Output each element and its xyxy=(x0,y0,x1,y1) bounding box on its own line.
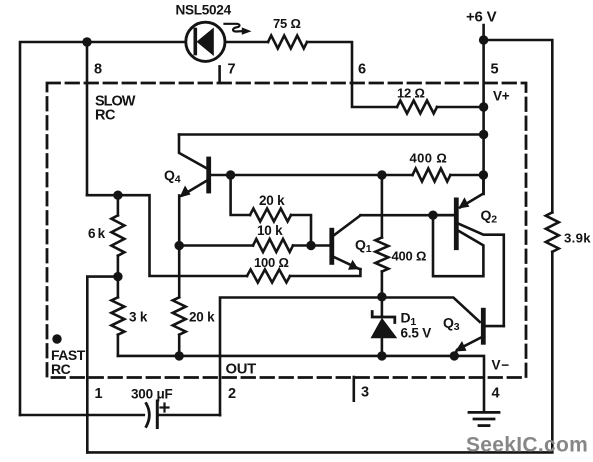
svg-text:Q1: Q1 xyxy=(355,237,372,256)
junction pin 8 / top rail xyxy=(82,37,91,46)
label 3.9k xyxy=(564,231,591,246)
label pin 5 xyxy=(491,62,499,78)
junction 12 ohm / V+ xyxy=(479,102,488,111)
wire: emitter column to 10k xyxy=(179,244,253,247)
svg-text:+6 V: +6 V xyxy=(466,9,497,26)
label D1 xyxy=(401,310,417,329)
label pin 8 xyxy=(94,62,102,78)
junction Q2 base xyxy=(428,211,437,220)
resistor 3 k xyxy=(111,277,124,356)
label RC fast xyxy=(51,361,71,377)
svg-text:20 k: 20 k xyxy=(189,310,215,325)
resistor 20 k horizontal xyxy=(250,209,291,222)
junction Q1 base xyxy=(306,241,315,250)
label SLOW xyxy=(95,94,136,110)
label 10 k xyxy=(257,223,283,238)
wire: pin 8 to 6k top and down-step to 100 ohm xyxy=(87,195,247,276)
label pin 6 xyxy=(358,62,366,78)
junction 6k top xyxy=(113,191,122,200)
transistor Q2 xyxy=(433,175,504,326)
label 75 ohm xyxy=(273,16,301,31)
label pin 7 xyxy=(228,62,236,78)
svg-text:RC: RC xyxy=(95,108,116,124)
transistor Q3 xyxy=(454,310,504,356)
label 100 ohm xyxy=(254,255,289,270)
wire: LED cathode to 75 ohm resistor xyxy=(225,41,268,44)
label 6.5 V xyxy=(401,326,432,341)
wire: Q1 collector to Q2 base xyxy=(360,214,454,217)
label pin 2 xyxy=(228,386,236,402)
resistor 12 ohm xyxy=(397,101,437,114)
label 400 ohm vertical xyxy=(392,249,427,264)
label Q2 xyxy=(481,207,498,226)
label OUT xyxy=(226,362,257,378)
label Q1 xyxy=(355,237,372,256)
svg-text:4: 4 xyxy=(492,386,500,402)
svg-text:Q3: Q3 xyxy=(443,315,460,334)
svg-text:400 Ω: 400 Ω xyxy=(392,249,427,264)
wire: top rail from left corner to LED anode xyxy=(20,42,186,415)
junction 6k bottom / 3k top xyxy=(113,272,122,281)
svg-text:3 k: 3 k xyxy=(129,310,148,325)
wire: 12 ohm to V+ line xyxy=(437,106,483,109)
pin 3 tick xyxy=(352,377,355,401)
wire: 20k to Q1 base node xyxy=(291,215,311,246)
svg-text:6.5 V: 6.5 V xyxy=(401,326,432,341)
resistor 3.9k xyxy=(546,212,559,251)
resistor 400 ohm vertical xyxy=(375,175,388,297)
svg-text:6 k: 6 k xyxy=(88,226,106,241)
label pin 1 xyxy=(95,386,103,402)
zener diode D1 6.5 V xyxy=(371,298,398,356)
svg-text:5: 5 xyxy=(491,62,499,78)
label SeekIC.com watermark xyxy=(466,434,588,457)
resistor 100 ohm xyxy=(247,270,290,283)
label Q4 xyxy=(164,167,181,186)
junction 400 ohm vertical top xyxy=(377,170,386,179)
svg-text:RC: RC xyxy=(51,361,71,377)
wire: 10k to Q1 base xyxy=(293,244,330,247)
svg-text:NSL5024: NSL5024 xyxy=(176,3,232,18)
svg-text:75 Ω: 75 Ω xyxy=(273,16,301,31)
svg-text:V+: V+ xyxy=(493,89,510,104)
wire: V- rail (pin 4) xyxy=(118,356,484,412)
junction Q2 emitter / V+ xyxy=(479,170,488,179)
arrowhead Q4 emitter xyxy=(180,186,191,198)
svg-text:SeekIC.com: SeekIC.com xyxy=(466,434,588,457)
transistor Q4 xyxy=(179,135,209,196)
svg-text:8: 8 xyxy=(94,62,102,78)
junction Q4 emitter / 10k xyxy=(175,241,184,250)
IC package dashed boundary box xyxy=(47,83,526,378)
label FAST xyxy=(51,347,86,363)
svg-text:20 k: 20 k xyxy=(259,193,285,208)
svg-text:400 Ω: 400 Ω xyxy=(410,151,448,166)
label pin 4 xyxy=(492,386,500,402)
label 3 k xyxy=(129,310,148,325)
svg-text:12 Ω: 12 Ω xyxy=(397,86,425,101)
arrowhead Q1 emitter xyxy=(348,260,359,270)
label 12 ohm xyxy=(397,86,425,101)
label 6 k xyxy=(88,226,106,241)
wire: bottom rail to capacitor left plate xyxy=(20,414,144,417)
svg-text:OUT: OUT xyxy=(226,362,257,378)
wire: 6k bottom to pin 1 line xyxy=(87,277,118,453)
label 20 k vertical xyxy=(189,310,215,325)
junction Q4 base / 20k branch xyxy=(226,170,235,179)
junction Q4 collector rail / V+ xyxy=(479,130,488,139)
svg-text:6: 6 xyxy=(358,62,366,78)
wire: +6V to right 3.9k branch xyxy=(484,40,553,212)
resistor 400 ohm horizontal xyxy=(413,169,484,182)
wire: Q4 base rail xyxy=(210,174,413,177)
LED NSL5024 xyxy=(186,22,242,61)
svg-text:10 k: 10 k xyxy=(257,223,283,238)
junction zener bottom / V- rail xyxy=(377,351,386,360)
junction 20k bottom / V- rail xyxy=(175,351,184,360)
wire: pin 8 line xyxy=(86,42,89,195)
svg-text:Q4: Q4 xyxy=(164,167,181,186)
wire: Q4 collector rail to V+ xyxy=(179,133,484,136)
resistor 10 k xyxy=(253,239,293,252)
wire: Q4 emitter column xyxy=(178,196,181,246)
svg-text:7: 7 xyxy=(228,62,236,78)
label +6 V xyxy=(466,9,497,26)
arrowhead Q3 emitter xyxy=(455,341,466,352)
label 20 k horizontal xyxy=(259,193,285,208)
resistor 75 ohm xyxy=(268,36,307,49)
wire: capacitor plus plate to pin 2 xyxy=(157,414,220,417)
wire: base branch down to 20k xyxy=(231,175,250,215)
junction +6V xyxy=(479,35,488,44)
svg-text:1: 1 xyxy=(95,386,103,402)
label NSL5024 xyxy=(176,3,232,18)
label RC slow xyxy=(95,108,116,124)
junction zener top xyxy=(377,292,386,301)
label pin 3 xyxy=(361,385,369,401)
resistor 6 k xyxy=(111,195,124,276)
wire: 100 ohm to Q1 emitter xyxy=(290,269,360,276)
wire: 75 ohm to pin 6 drop xyxy=(307,42,397,107)
label V- xyxy=(492,358,511,373)
svg-text:V−: V− xyxy=(492,358,511,373)
label 300 uF xyxy=(131,387,173,402)
svg-text:300 μF: 300 μF xyxy=(131,387,173,402)
label Q3 xyxy=(443,315,460,334)
svg-text:2: 2 xyxy=(228,386,236,402)
label V+ xyxy=(493,89,510,104)
arrowhead LED light xyxy=(242,27,252,34)
node FAST RC bullet xyxy=(52,334,61,343)
capacitor C1 300 uF xyxy=(146,401,168,428)
svg-text:100 Ω: 100 Ω xyxy=(254,255,289,270)
arrowhead Q2 emitter xyxy=(458,197,469,208)
junction Q3 emitter / V- rail xyxy=(450,351,459,360)
wire: 3.9k bottom to bottom rail xyxy=(87,252,552,453)
wire: OUT node (pin 2) to Q3 base xyxy=(220,298,480,416)
transistor Q1 xyxy=(332,215,361,269)
svg-text:3: 3 xyxy=(361,385,369,401)
label 400 ohm horizontal xyxy=(410,151,448,166)
svg-text:3.9k: 3.9k xyxy=(564,231,591,246)
svg-text:Q2: Q2 xyxy=(481,207,498,226)
resistor 20 k vertical xyxy=(173,246,186,356)
pin 7 tick xyxy=(218,66,221,82)
node +6 V supply line (pin 5 / V+) xyxy=(482,25,485,194)
ground xyxy=(469,412,499,425)
